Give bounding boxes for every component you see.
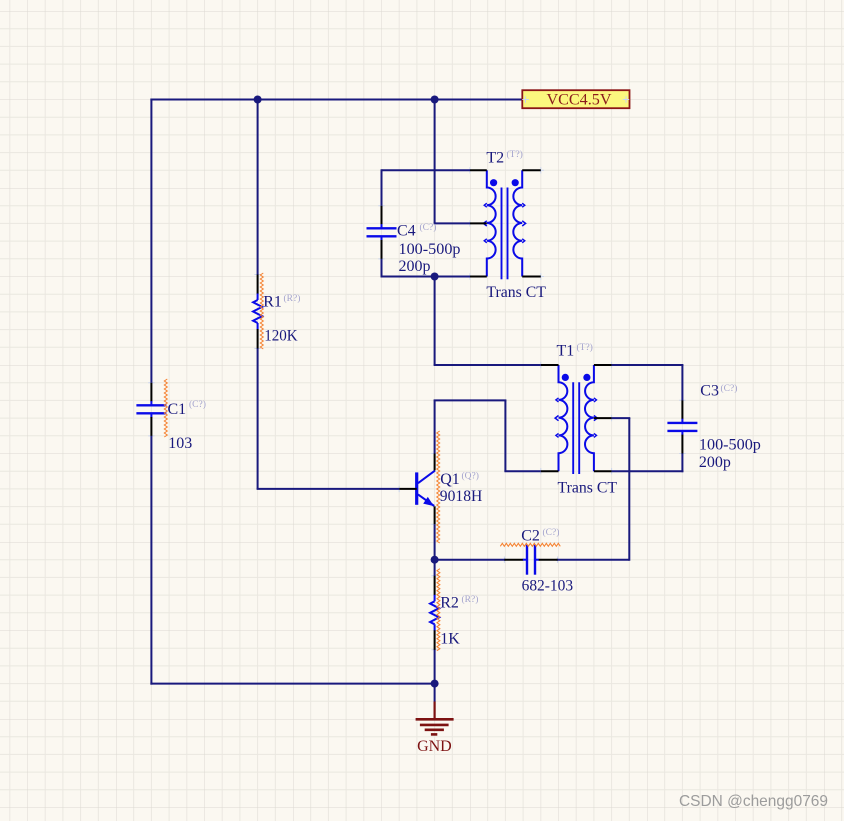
capacitor C4 <box>381 206 383 225</box>
node junction bottom/GND <box>431 680 439 688</box>
wire T2 tap horizontal <box>434 222 470 224</box>
error marker R2 <box>437 569 440 651</box>
wire C1 to bottom rail <box>150 436 152 685</box>
pin T1 tap right <box>594 417 612 419</box>
svg-text:200p: 200p <box>699 454 731 471</box>
error marker Q1 <box>437 431 440 543</box>
wire T1 top-right to C3 <box>612 364 684 366</box>
transformer T1 <box>555 365 597 474</box>
pin T1 bottom-left <box>541 470 559 472</box>
svg-text:C1: C1 <box>168 401 187 418</box>
pin Q1 emitter <box>434 506 436 524</box>
wire VCC rail <box>150 99 522 101</box>
wire collector vertical <box>434 400 436 453</box>
wire T1 bottom-left loop vertical <box>504 400 506 471</box>
svg-text:(R?): (R?) <box>462 594 479 605</box>
error marker C1 <box>164 379 167 437</box>
wire T2 bottom junction down <box>434 277 436 366</box>
svg-text:Trans CT: Trans CT <box>486 284 546 301</box>
ground symbol <box>416 702 454 735</box>
pin hotspot markers <box>148 167 685 653</box>
wire VCC junction down to T2 tap <box>434 100 436 224</box>
wire C3 top vertical <box>681 365 683 400</box>
pin T1 top-left <box>541 364 559 366</box>
svg-text:C2: C2 <box>521 527 540 544</box>
wire T1 tap down to C2 row <box>628 418 630 561</box>
pin T2 bottom-left <box>470 276 487 278</box>
power port VCC4.5V <box>522 90 629 108</box>
svg-text:T1: T1 <box>557 342 575 359</box>
pin T2 tap <box>470 222 487 224</box>
svg-text:120K: 120K <box>264 328 298 345</box>
wire C4 left top <box>381 169 383 205</box>
wire left branch down to C1 <box>150 99 152 383</box>
svg-text:Trans CT: Trans CT <box>558 480 618 497</box>
error marker C2 <box>500 543 560 546</box>
pin T2 top-right <box>522 169 541 171</box>
pin Q1 collector <box>434 454 436 471</box>
wire T1 bottom-left loop horizontal <box>504 470 540 472</box>
svg-text:(C?): (C?) <box>543 527 560 538</box>
wire to T1 top-left <box>434 364 541 366</box>
node junction R1/VCC <box>254 96 262 104</box>
wire bottom junction to GND stem <box>434 684 436 702</box>
transformer T2 <box>483 170 525 279</box>
wire C4 top horizontal <box>382 169 471 171</box>
node junction below C4 <box>431 273 439 281</box>
wire emitter to C2 junction <box>434 524 436 559</box>
svg-text:1K: 1K <box>440 630 460 647</box>
svg-text:200p: 200p <box>399 258 431 275</box>
resistor R1 <box>257 275 259 295</box>
pin T1 top-right <box>594 364 612 366</box>
resistor R2 <box>434 576 436 596</box>
transistor Q1 <box>417 471 435 507</box>
svg-text:(T?): (T?) <box>577 342 593 353</box>
svg-text:100-500p: 100-500p <box>699 436 761 453</box>
pin T1 bottom-right <box>594 470 612 472</box>
svg-text:103: 103 <box>168 435 192 452</box>
svg-text:(C?): (C?) <box>420 222 437 233</box>
svg-text:(Q?): (Q?) <box>462 470 479 481</box>
wire C4 bottom horizontal to T2 <box>382 276 471 278</box>
wire base row to Q1 <box>257 488 400 490</box>
wire collector row <box>434 399 507 401</box>
svg-text:(C?): (C?) <box>189 399 206 410</box>
svg-text:C4: C4 <box>397 222 416 239</box>
svg-text:R2: R2 <box>440 594 459 611</box>
wire C2 right horizontal <box>557 559 630 561</box>
capacitor C2 <box>504 559 523 561</box>
wire R1 to base row <box>257 349 259 489</box>
wire C2 junction down to R2 <box>434 560 436 576</box>
pin T2 top-left <box>470 169 487 171</box>
wire C3 bottom to T1 bottom-right <box>612 470 684 472</box>
svg-text:VCC4.5V: VCC4.5V <box>547 92 612 109</box>
svg-text:C3: C3 <box>700 382 719 399</box>
capacitor C1 <box>150 383 152 402</box>
svg-text:(T?): (T?) <box>507 149 523 160</box>
pin T2 bottom-right <box>522 276 541 278</box>
wire C4 left bottom <box>381 259 383 278</box>
wire C2 junction left horizontal <box>435 559 506 561</box>
svg-text:GND: GND <box>417 738 452 755</box>
svg-text:9018H: 9018H <box>440 488 483 505</box>
wire R1 branch upper <box>257 100 259 275</box>
svg-text:CSDN @chengg0769: CSDN @chengg0769 <box>679 793 828 810</box>
svg-text:R1: R1 <box>263 293 282 310</box>
svg-text:100-500p: 100-500p <box>399 241 461 258</box>
pin Q1 base <box>399 488 417 490</box>
wire bottom rail <box>150 683 434 685</box>
wire C3 bottom vertical <box>681 454 683 473</box>
node junction center/VCC <box>431 96 439 104</box>
svg-text:(R?): (R?) <box>284 293 301 304</box>
svg-text:Q1: Q1 <box>440 471 460 488</box>
wire T1 tap horizontal <box>612 417 631 419</box>
node junction emitter/C2/R2 <box>431 556 439 564</box>
svg-text:(C?): (C?) <box>721 383 738 394</box>
wire R2 to bottom junction <box>434 650 436 684</box>
capacitor C3 <box>681 400 683 419</box>
svg-text:682-103: 682-103 <box>522 578 574 595</box>
svg-text:T2: T2 <box>486 149 504 166</box>
error marker R1 <box>260 273 263 349</box>
